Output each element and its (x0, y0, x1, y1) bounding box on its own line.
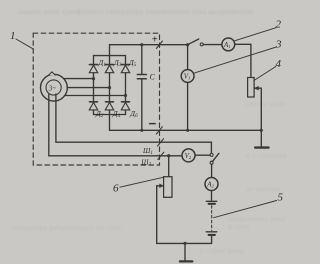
svg-text:Д2: Д2 (95, 109, 104, 119)
svg-text:5: 5 (278, 191, 284, 203)
svg-text:+: + (152, 35, 158, 46)
svg-text:2: 2 (276, 18, 282, 30)
svg-text:Ш1: Ш1 (142, 147, 153, 156)
svg-text:6: 6 (113, 183, 119, 195)
svg-text:C: C (150, 73, 156, 82)
svg-text:4: 4 (276, 58, 282, 70)
svg-text:3~: 3~ (48, 85, 56, 92)
svg-text:1: 1 (10, 30, 16, 42)
svg-text:Д6: Д6 (129, 109, 138, 119)
svg-text:Д4: Д4 (112, 109, 121, 119)
svg-text:Ш2: Ш2 (140, 158, 151, 167)
svg-text:3: 3 (275, 38, 282, 50)
svg-text:Д3: Д3 (113, 58, 122, 68)
svg-text:Д1: Д1 (98, 58, 107, 68)
svg-text:Д5: Д5 (128, 58, 137, 68)
